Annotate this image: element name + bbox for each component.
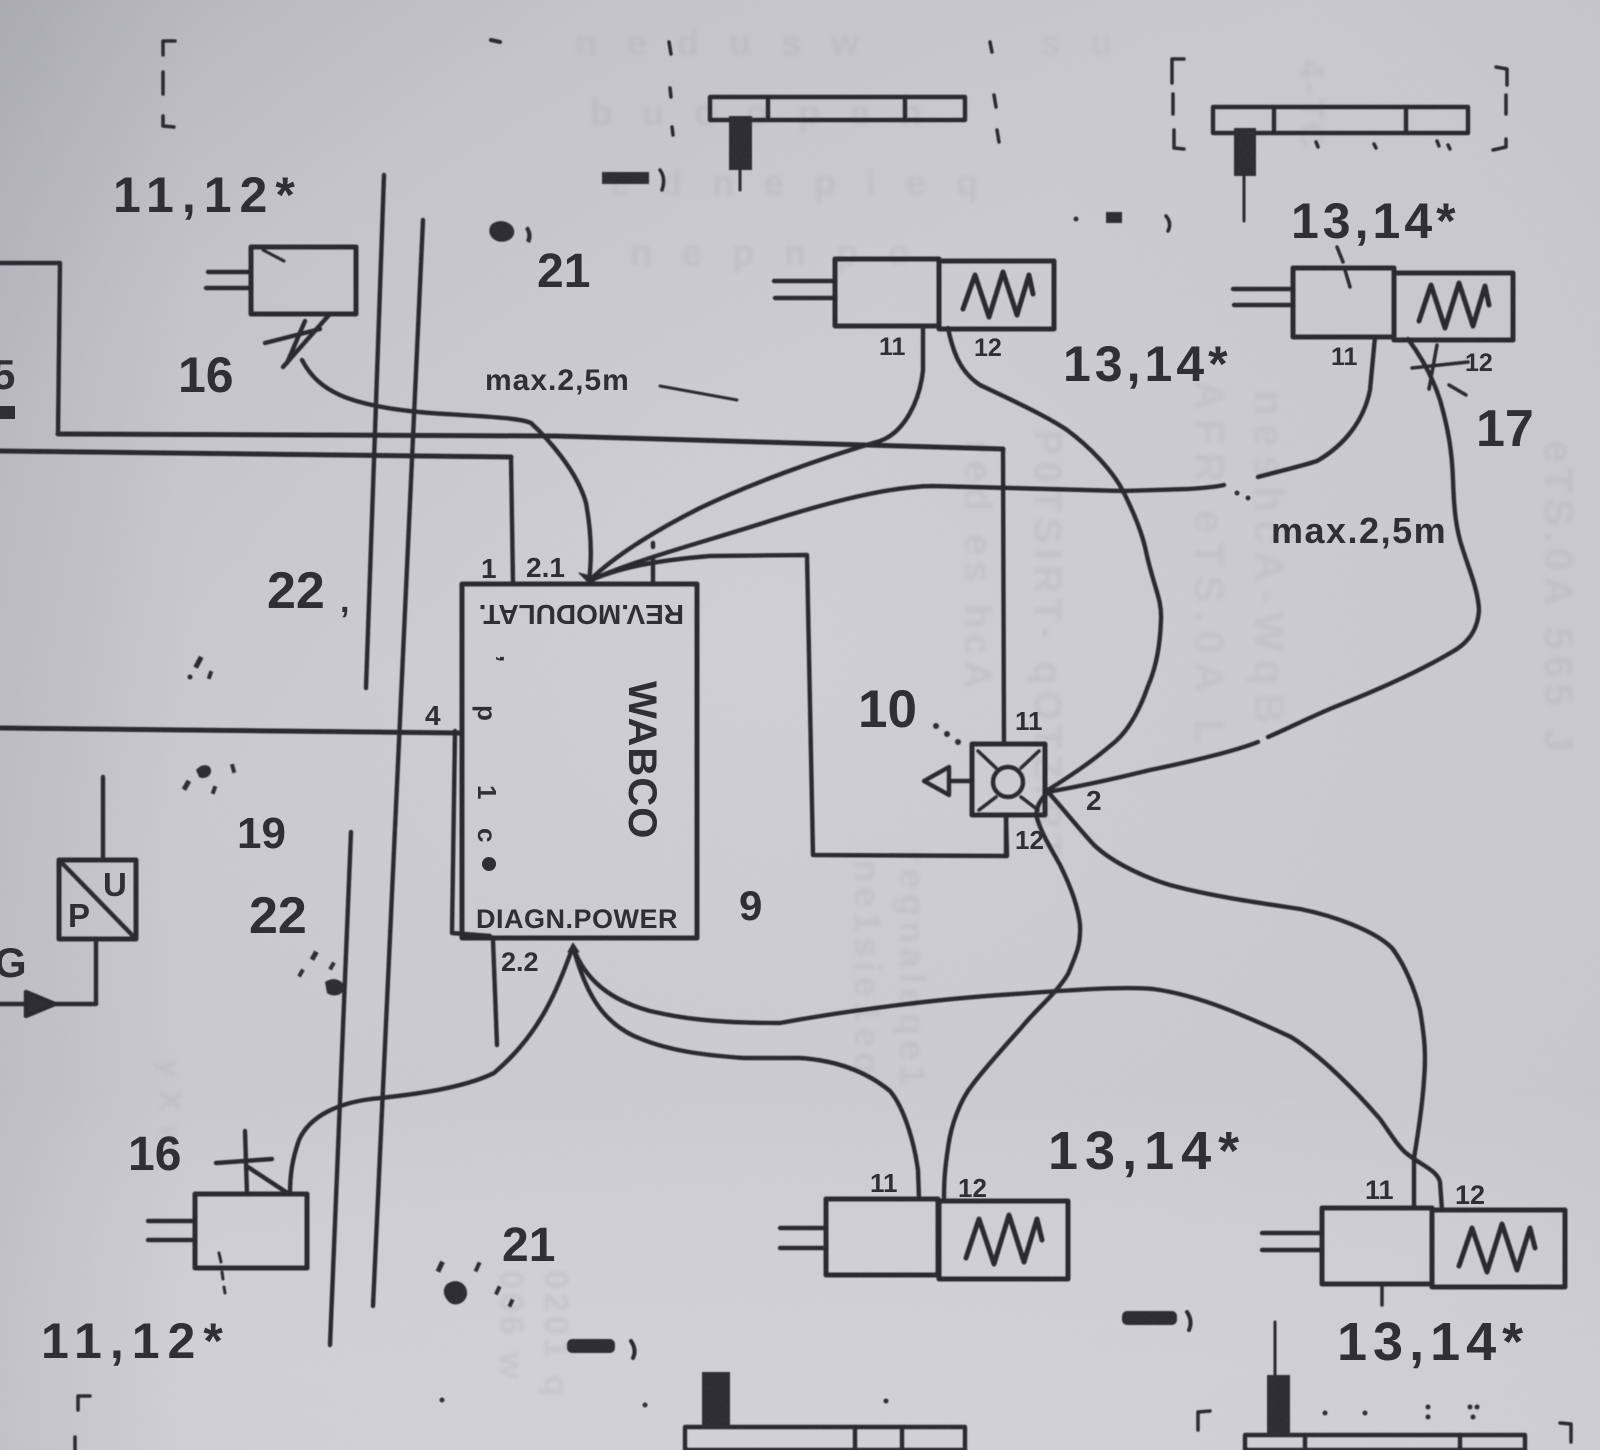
droplets below valve 16 lower (219, 1253, 225, 1293)
modulator port 2.1 tick (651, 543, 655, 584)
brake chamber top-right: service body (1293, 268, 1394, 337)
dashed bracket top-right axle right (1493, 67, 1507, 150)
axle symbol top-center (710, 97, 965, 190)
fan junction blob at 2.2 (568, 943, 579, 952)
wire: drop from port-4 bus down to box bottom level (452, 731, 490, 936)
dashed corner bottom-left (75, 1396, 90, 1450)
valve 16 lower body (195, 1194, 307, 1268)
axle symbol bottom-right (partial) (1245, 1322, 1525, 1450)
brake chamber top-right: spring (1419, 283, 1489, 328)
wire: supply line upper-left corner (0, 263, 60, 434)
ink smudge marks above 19 (188, 656, 214, 680)
brake chamber bottom-right: spring (1459, 1224, 1535, 1272)
brake chamber top-center: supply stubs (774, 281, 835, 298)
pressure sensor 19 wire above (101, 777, 105, 860)
bleed-through ghost text (reverse side, faint) (575, 22, 1122, 273)
wire: valve 10 port 2 to bottom-center chamber port 12 (arc D) (944, 792, 1080, 1199)
dash-bracket between axles (602, 170, 664, 190)
top-right chamber label leader (1337, 247, 1350, 287)
wire: 2.2 fan to valve 16 lower (290, 947, 573, 1194)
brake chamber bottom-right: service body (1322, 1208, 1432, 1284)
wire: H1 drop to valve 10 port 11 (1003, 449, 1004, 744)
dash row below top axles (1074, 212, 1170, 231)
frame rail lower left (330, 832, 351, 1345)
brake chamber bottom-center: supply stubs (780, 1228, 826, 1248)
wire H4: horizontal bus to modulator port 4 (0, 728, 462, 733)
wire: valve 16 upper to modulator port 2.1 (302, 360, 591, 581)
bold dash bottom-center-left (567, 1339, 635, 1358)
ink smudge trail near 19 (182, 764, 236, 795)
axle symbol bottom-left (partial) (685, 1372, 965, 1450)
ink smudge near 22 lower (297, 951, 344, 996)
cross symbol on top-right port-12 wire (17) (1412, 345, 1468, 395)
valve 16 upper actuator cross (265, 315, 329, 367)
misc small dots (440, 491, 1251, 1408)
frame rail upper right (continuous) (373, 220, 423, 1306)
valve 10 exhaust (924, 767, 972, 795)
valve 10 port 12 line (1004, 815, 1008, 856)
valve 16 lower actuator cross (216, 1131, 289, 1194)
dashed marks right of top-center axle (990, 42, 999, 142)
valve 16 upper supply stubs (206, 272, 251, 288)
wire: 2.1 fan to top-center chamber port 11 (589, 328, 923, 581)
modulator port 2.2 line (493, 940, 497, 1045)
valve 16 lower supply stubs (148, 1221, 195, 1240)
brake chamber bottom-center: service body (826, 1199, 938, 1275)
small dash top-right of frame (491, 40, 500, 42)
fan junction blob at 2.1 (579, 573, 598, 584)
brake chamber bottom-right: supply stubs (1262, 1233, 1322, 1250)
wire: 2.2 fan to bottom-center chamber port 11 (573, 947, 919, 1199)
ink splatter near 21 (lower) (436, 1261, 515, 1308)
brake chamber bottom-right: spring body (1432, 1210, 1565, 1287)
wire: 2.2 fan to bottom-right chamber port 12 (573, 947, 1442, 1210)
axle symbol top-right (1213, 107, 1468, 221)
frame rail upper left (366, 175, 384, 688)
modulator 9 (WABCO) body (462, 584, 697, 938)
modulator left side rotated chars (472, 655, 524, 871)
dots under top-right axle (1316, 141, 1450, 149)
wire H2: long horizontal bus to port 1 (0, 451, 511, 457)
square mark left edge (0, 406, 15, 419)
pressure sensor 19 output with arrow (0, 939, 96, 1016)
dashed bracket marks left of top-center axle (669, 42, 673, 135)
bold dash bottom-right (1122, 1311, 1191, 1330)
brake chamber top-center: spring (963, 272, 1033, 317)
brake chamber top-right: spring body (1394, 273, 1513, 340)
brake chamber bottom-center: spring (966, 1215, 1042, 1264)
valve 16 upper body (251, 247, 356, 314)
brake chamber top-right: supply stubs (1233, 289, 1293, 305)
wire: H2 drop to modulator port 1 (511, 457, 513, 584)
brake chamber top-center: spring body (939, 261, 1054, 329)
brake chamber top-center: service body (835, 259, 939, 326)
dot row bottom-right (1323, 1405, 1480, 1420)
bottom-right chamber label leader (1380, 1284, 1384, 1305)
dashed corner bottom-right area (1198, 1411, 1571, 1442)
wire: 2.1 fan to valve 10 port 12 (elbow path) (589, 555, 1007, 856)
wire: 2.1 fan to top-right chamber port 11 (589, 337, 1375, 581)
wire: valve 10 port 2 to top-right chamber port 12 (arc B) (1048, 339, 1479, 792)
valve 10 body (972, 744, 1045, 815)
wire: valve 10 port 2 to bottom-right chamber port 11 (arc C) (1048, 792, 1425, 1208)
dashed bracket top-right axle left (1172, 59, 1184, 149)
brake chamber bottom-center: spring body (939, 1201, 1068, 1279)
max 2,5m leader (left) (660, 386, 737, 400)
pressure sensor 19 (P/U) body (59, 860, 136, 939)
wire: valve 10 port 2 to top-center chamber port 12 (arc A) (948, 328, 1161, 790)
wire H1: long horizontal bus to valve 10 control (58, 434, 1003, 449)
dashed bracket top-left (163, 41, 175, 127)
ink blob under 21 (upper) (489, 221, 531, 243)
